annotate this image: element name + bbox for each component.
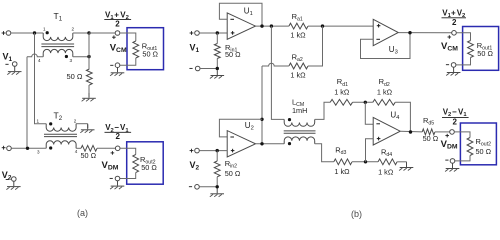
svg-text:1 kΩ: 1 kΩ	[334, 167, 350, 176]
label 50 ohm (a) shunt	[67, 72, 83, 81]
label Rd1	[337, 77, 348, 88]
svg-text:1 kΩ: 1 kΩ	[290, 31, 306, 40]
op-amp U1	[227, 13, 255, 39]
svg-text:50 Ω: 50 Ω	[477, 49, 493, 58]
polarity dot LCM top	[288, 118, 291, 121]
label U2	[245, 121, 254, 132]
wire V2- to ground node	[199, 186, 217, 188]
transformer T2 secondary winding	[46, 141, 76, 149]
label Rout2 (b)	[476, 137, 492, 148]
label Rin2 value	[225, 169, 241, 178]
fraction (V2-V1)/2 (a)	[105, 123, 132, 141]
node Rin1 top	[216, 31, 219, 34]
ground VDM(a)	[110, 181, 124, 189]
node Ra1 out	[321, 24, 324, 27]
node U2 fb tap	[260, 118, 263, 121]
terminal VDM(a) -	[110, 176, 120, 181]
label VCM (a)	[110, 43, 127, 55]
wire node to U4 -	[365, 102, 373, 124]
node Rin1 bottom	[216, 67, 219, 70]
ground VCM(a)	[110, 68, 124, 76]
svg-text:2: 2	[452, 18, 457, 27]
svg-text:1mH: 1mH	[292, 106, 307, 115]
label Rd2	[379, 77, 390, 88]
wire Rd1 to node	[353, 101, 373, 103]
wire Rout1 to VCM(b) -	[456, 58, 471, 65]
label LCM value	[292, 106, 307, 115]
label VCM (b)	[441, 41, 458, 53]
resistor Ra1	[289, 23, 308, 29]
wire 50ohm to VDM(a) +	[97, 147, 115, 149]
wire T2 pin2 to ground	[76, 124, 88, 128]
resistor Rout2 (b)	[467, 138, 473, 156]
svg-text:2: 2	[116, 132, 121, 141]
transformer T1 core	[41, 44, 74, 47]
wire V2+ to U2 +	[199, 150, 227, 152]
resistor Ra2	[289, 63, 308, 69]
wire T2 pin4 to 50ohm	[76, 147, 81, 149]
label Ra1 value	[290, 31, 306, 40]
wire LCM top to Rd1	[315, 102, 331, 119]
wire U4 output	[400, 130, 422, 133]
wire VCM(a) + to Rout1	[120, 33, 136, 41]
label 50 ohm series (a)	[81, 151, 97, 160]
inductor LCM top winding	[284, 119, 315, 126]
label Ra1	[292, 12, 303, 23]
resistor Rin2	[214, 151, 220, 187]
inductor LCM core	[284, 131, 316, 133]
wire node to U4 +	[366, 139, 374, 162]
label U4	[390, 110, 400, 121]
svg-text:50 Ω: 50 Ω	[476, 147, 492, 156]
label V1 (b)	[190, 43, 200, 55]
label Rd5	[423, 116, 434, 127]
resistor Rout2 (a)	[133, 155, 139, 173]
pin 1 T1	[43, 27, 46, 32]
svg-text:+: +	[451, 8, 456, 17]
terminal VCM(a) +	[112, 31, 120, 39]
wire U2 output	[256, 143, 285, 145]
label Rout2 value (a)	[141, 163, 157, 172]
measurement box VCM (a)	[127, 28, 164, 70]
wire V2+ to T2 pin3	[11, 147, 46, 149]
transformer T1 primary winding	[43, 33, 73, 41]
svg-text:50 Ω: 50 Ω	[67, 72, 83, 81]
node U1 output branch	[270, 24, 273, 27]
wire U3 input	[372, 25, 374, 27]
pin 1 T2	[37, 119, 40, 124]
label Rd1 value	[334, 87, 350, 96]
wire LCM bottom to Rd3	[315, 144, 334, 162]
wire Rout2 to VDM(b) -	[455, 156, 470, 161]
terminal VCM(a) -	[110, 63, 120, 68]
wire Rd2 to U4 output rail	[395, 102, 410, 132]
node Rin2 bottom	[216, 185, 219, 188]
wire U1 branch rail to LCM top	[271, 26, 284, 119]
svg-text:2: 2	[74, 119, 77, 124]
wire U2 feedback	[219, 119, 262, 137]
svg-text:50 Ω: 50 Ω	[81, 151, 97, 160]
wire Ra1 node down to Ra2	[308, 26, 323, 66]
label Rd4 value	[378, 167, 394, 176]
resistor Rin1	[214, 33, 220, 69]
voltage source V2 + terminal (a)	[2, 146, 12, 151]
voltage source V1 + terminal (b)	[190, 31, 200, 36]
svg-text:3: 3	[37, 149, 40, 154]
wire Rd3 to node	[352, 161, 378, 163]
svg-text:1 kΩ: 1 kΩ	[378, 167, 394, 176]
node Rin2 top	[216, 149, 219, 152]
polarity dot T2 pin3	[49, 146, 52, 149]
label Rout1 (b)	[477, 41, 493, 52]
label Rd4	[381, 147, 392, 158]
svg-text:2: 2	[115, 20, 120, 29]
wire V1+ to T1 pin1	[11, 32, 43, 34]
ground V1 (b)	[210, 70, 224, 78]
svg-text:4: 4	[38, 58, 41, 63]
terminal VCM(b) -	[446, 63, 456, 68]
caption (b)	[351, 209, 362, 219]
polarity dot T1 pin3	[65, 55, 68, 58]
pin 3 T1	[70, 58, 73, 63]
svg-text:(b): (b)	[351, 209, 362, 219]
pin 2 T1	[72, 27, 75, 32]
label LCM	[292, 97, 304, 108]
label V2 (b)	[190, 160, 200, 172]
node V2 junction (a)	[26, 147, 29, 150]
polarity dot LCM bottom	[288, 142, 291, 145]
ground T2 pin2	[80, 125, 94, 133]
wire Ra1 to U3	[308, 25, 373, 27]
voltage source V2 - terminal (a)	[6, 177, 16, 182]
wire Rout2 to VDM(a) -	[120, 173, 136, 179]
wire VDM(b) + to Rout2	[454, 132, 470, 138]
resistor Rd3	[334, 159, 352, 165]
svg-text:50 Ω: 50 Ω	[142, 50, 158, 59]
svg-text:4: 4	[75, 149, 78, 154]
svg-text:50 Ω: 50 Ω	[225, 50, 241, 59]
measurement box VDM (a)	[127, 142, 164, 184]
svg-text:3: 3	[70, 58, 73, 63]
node U4 output	[409, 130, 412, 133]
label Rd5 value	[423, 134, 439, 143]
svg-text:−: −	[452, 108, 457, 117]
node V1 junction	[33, 31, 36, 34]
svg-text:2: 2	[72, 27, 75, 32]
wire V1+ to U1 +	[199, 32, 227, 34]
label Rout1 value (b)	[477, 49, 493, 58]
node Rd1-Rd2	[364, 101, 367, 104]
resistor Rd2	[373, 99, 395, 105]
resistor 50 ohm shunt (a)	[86, 69, 92, 85]
wire VDM(a) + to Rout2	[120, 148, 136, 154]
label Ra2 value	[290, 70, 306, 79]
label Rout2 (a)	[140, 155, 156, 166]
node Rd3-Rd4	[364, 160, 367, 163]
pin 4 T2	[75, 149, 78, 154]
voltage source V1 - terminal	[5, 62, 17, 67]
svg-text:50 Ω: 50 Ω	[423, 134, 439, 143]
pin 2 T2	[74, 119, 77, 124]
op-amp U4	[373, 117, 400, 145]
transformer T1 label	[54, 11, 63, 23]
svg-text:1: 1	[37, 119, 40, 124]
ground Rd4	[399, 162, 413, 170]
svg-text:1: 1	[43, 27, 46, 32]
svg-text:2: 2	[453, 118, 458, 127]
transformer T2 core	[44, 134, 77, 136]
label Rd2 value	[377, 87, 393, 96]
label Rd3 value	[334, 167, 350, 176]
svg-text:1 kΩ: 1 kΩ	[334, 87, 350, 96]
resistor Rd1	[330, 99, 352, 105]
polarity dot T1 pin1	[46, 31, 49, 34]
terminal VDM(a) +	[111, 146, 120, 155]
svg-text:1 kΩ: 1 kΩ	[377, 87, 393, 96]
transformer T1 secondary winding	[43, 49, 73, 56]
node T1 pin3 bus	[87, 55, 90, 58]
voltage source V2 - terminal (b)	[189, 185, 199, 190]
transformer T2 label	[54, 110, 63, 122]
label Rout1 value (a)	[142, 50, 158, 59]
caption (a)	[77, 208, 88, 218]
wire VCM(a) input	[89, 32, 115, 34]
label Rd3	[335, 145, 346, 156]
node T1 pin2 bus	[87, 31, 90, 34]
op-amp U3	[373, 19, 398, 45]
wire Rd4 to ground	[397, 161, 406, 164]
ground V2 (a)	[6, 181, 20, 189]
wire VCM(b) + to Rout1	[456, 33, 470, 41]
resistor Rout1 (a)	[133, 41, 139, 58]
label Rout1 (a)	[142, 41, 158, 52]
label VDM (a)	[102, 160, 119, 172]
fraction (V1+V2)/2 (a)	[104, 10, 131, 28]
label Ra2	[292, 52, 303, 63]
measurement box VDM (b)	[460, 123, 496, 165]
wire Rout1 to VCM(a) -	[120, 58, 136, 65]
svg-text:50 Ω: 50 Ω	[141, 163, 157, 172]
label U3	[389, 45, 398, 56]
svg-text:(a): (a)	[77, 208, 88, 218]
wire T1 pin3 to bus	[73, 56, 89, 58]
wire U3 output	[398, 32, 451, 34]
wire V1- to ground node	[200, 68, 217, 70]
svg-text:+: +	[114, 10, 119, 19]
ground V2 (b)	[210, 189, 224, 197]
ground VCM(b)	[446, 67, 460, 75]
resistor Rd4	[378, 159, 397, 165]
resistor Rout1 (b)	[468, 41, 474, 58]
label Rout2 value (b)	[476, 147, 492, 156]
op-amp U2	[227, 131, 255, 157]
label V2 (a)	[2, 170, 12, 182]
measurement box VCM (b)	[463, 27, 499, 71]
fraction (V1+V2)/2 (b)	[442, 8, 467, 27]
wire bus vertical	[88, 33, 90, 69]
wire resistor to ground	[88, 85, 90, 93]
wire T1 pin4 hop over V1 rail	[27, 54, 43, 148]
voltage source V1 - terminal (b)	[189, 66, 200, 71]
label U1	[244, 7, 253, 18]
inductor LCM bottom winding	[284, 137, 315, 144]
terminal VDM(b) +	[445, 130, 454, 138]
wire V1 rail to T2 pin1	[35, 33, 47, 124]
terminal VCM(b) +	[448, 31, 457, 39]
wire Rd5 to VDM(b) +	[435, 131, 450, 133]
fraction (V2-V1)/2 (b)	[442, 108, 469, 127]
label V1	[3, 52, 13, 64]
terminal VDM(b) -	[445, 159, 455, 164]
ground shunt resistor (a)	[82, 93, 96, 101]
node U3 output	[408, 31, 411, 34]
wire U1 output	[256, 25, 289, 27]
label Rin1 value	[225, 50, 241, 59]
svg-text:−: −	[114, 123, 119, 132]
voltage source V2 + terminal (b)	[190, 148, 200, 153]
ground V1	[7, 66, 21, 74]
node U2 output	[260, 142, 263, 145]
wire T1 pin2 to bus	[73, 32, 89, 34]
wire U3 feedback	[361, 33, 411, 59]
label Rin2	[225, 159, 237, 170]
svg-text:50 Ω: 50 Ω	[225, 169, 241, 178]
resistor Rd5	[422, 129, 435, 135]
label Rin1	[225, 43, 237, 54]
polarity dot T2 pin1	[49, 122, 52, 125]
resistor 50 ohm series (a)	[81, 145, 97, 151]
voltage source V1 + terminal	[2, 31, 11, 36]
pin 3 T2	[37, 149, 40, 154]
transformer T2 primary winding	[46, 124, 76, 132]
ground VDM(b)	[445, 163, 459, 171]
wire U1 feedback	[219, 3, 262, 26]
svg-text:1 kΩ: 1 kΩ	[290, 70, 306, 79]
pin 4 T1	[38, 58, 41, 63]
wire Ra2 left hop over U1 rail	[262, 63, 289, 144]
node U1 fb tap	[260, 24, 263, 27]
label VDM (b)	[441, 139, 458, 151]
